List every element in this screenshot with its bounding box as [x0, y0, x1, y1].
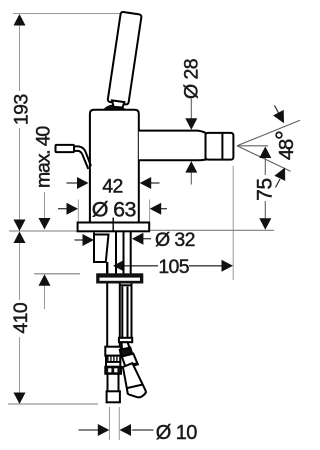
- svg-text:max. 40: max. 40: [33, 126, 55, 188]
- svg-text:193: 193: [10, 94, 32, 125]
- svg-text:Ø 63: Ø 63: [92, 197, 137, 221]
- svg-text:Ø 10: Ø 10: [156, 422, 197, 444]
- svg-text:Ø 32: Ø 32: [155, 229, 195, 251]
- svg-text:105: 105: [158, 256, 189, 278]
- svg-text:75: 75: [253, 178, 276, 201]
- svg-text:410: 410: [10, 302, 32, 333]
- svg-text:Ø 28: Ø 28: [181, 59, 203, 99]
- svg-text:42: 42: [102, 176, 123, 198]
- svg-text:48°: 48°: [271, 131, 299, 160]
